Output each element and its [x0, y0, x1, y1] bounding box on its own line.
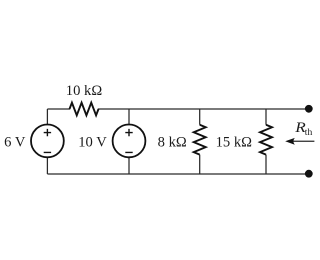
svg-text:8 kΩ: 8 kΩ — [158, 135, 187, 151]
svg-text:th: th — [305, 127, 313, 138]
svg-text:6 V: 6 V — [4, 135, 26, 151]
svg-text:10 kΩ: 10 kΩ — [66, 83, 103, 99]
svg-text:15 kΩ: 15 kΩ — [216, 135, 253, 151]
svg-text:10 V: 10 V — [78, 135, 107, 151]
